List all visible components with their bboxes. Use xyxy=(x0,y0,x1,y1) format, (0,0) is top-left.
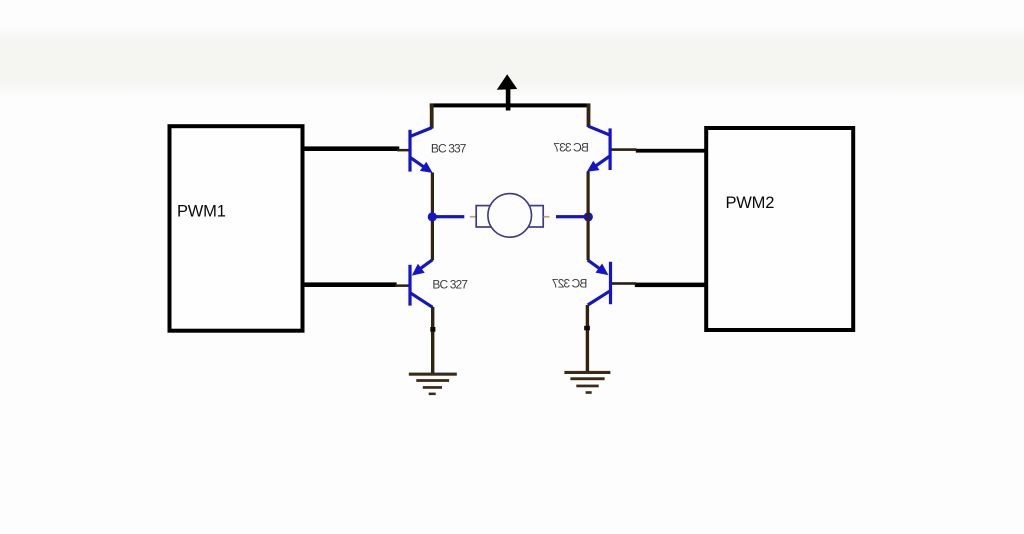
transistor Q2 emitter stroke xyxy=(417,260,432,271)
wire node B to motor xyxy=(556,215,588,218)
motor lead right (tan) xyxy=(544,216,550,218)
transistor Q2 BC327 base bar xyxy=(408,265,411,306)
transistor Q4 emitter stroke xyxy=(588,260,604,272)
supply arrow stem xyxy=(506,88,511,111)
transistor Q3 emitter stroke xyxy=(593,156,610,168)
wire rail to Q1 collector xyxy=(430,104,434,129)
node B junction dot xyxy=(584,212,593,221)
PWM1 box xyxy=(170,126,303,331)
wire node A to Q2 emitter xyxy=(431,217,434,260)
ground right line 3 xyxy=(576,385,598,388)
PWM2 box xyxy=(706,128,853,330)
svg-text:BC 337: BC 337 xyxy=(431,142,467,156)
wire Q3 emitter to node B xyxy=(587,172,590,218)
wire Q3 base thin tail xyxy=(610,148,637,151)
V+ supply rail xyxy=(430,103,591,107)
transistor Q1 emitter stroke xyxy=(411,158,428,170)
ground left line 2 xyxy=(416,379,449,382)
ground right line 1 xyxy=(564,371,610,374)
wire blob on Q4 ground wire xyxy=(584,326,590,331)
svg-text:BC 327: BC 327 xyxy=(552,277,588,291)
wire PWM1 to Q1 base xyxy=(303,146,400,151)
transistor Q1 emitter arrow xyxy=(420,162,433,173)
wire node A to motor xyxy=(432,215,465,218)
wire Q4 collector to ground xyxy=(586,305,589,373)
ground right line 2 xyxy=(570,377,604,380)
wire Q2 base thin tail xyxy=(395,284,410,287)
wire rail to Q3 collector xyxy=(587,104,591,128)
wire Q4 base thin tail xyxy=(610,282,636,285)
transistor Q3 collector stroke xyxy=(588,126,609,135)
node A junction dot xyxy=(428,212,437,221)
wire PWM2 to Q4 base xyxy=(635,283,707,288)
ground left line 3 xyxy=(423,386,442,389)
wire Q1 base thin tail xyxy=(397,149,410,152)
ground left line 1 xyxy=(409,373,457,376)
transistor Q3 emitter arrow xyxy=(587,161,600,172)
transistor Q3 BC337 base bar (mirrored) xyxy=(609,128,612,170)
transistor Q4 emitter arrow xyxy=(596,264,609,276)
transistor Q1 BC337 base bar xyxy=(408,130,411,172)
transistor Q2 collector stroke xyxy=(411,293,433,307)
transistor Q2 emitter arrow xyxy=(412,264,425,276)
motor lead left (tan) xyxy=(470,216,476,218)
svg-text:BC 337: BC 337 xyxy=(553,140,589,154)
motor M1 body circle xyxy=(488,194,532,238)
wire Q1 emitter to node A xyxy=(431,173,434,218)
transistor Q4 BC327 base bar (mirrored) xyxy=(609,262,612,304)
svg-text:PWM2: PWM2 xyxy=(726,194,775,212)
motor M1 right brush box xyxy=(523,206,543,227)
motor M1 left brush box xyxy=(476,206,496,227)
wire blob on Q2 ground wire xyxy=(430,327,435,332)
transistor Q4 collector stroke xyxy=(588,291,610,305)
transistor Q1 collector stroke xyxy=(411,128,432,137)
ground right line 4 xyxy=(586,391,592,394)
ground left line 4 xyxy=(429,393,436,396)
wire Q2 collector to ground xyxy=(431,307,434,374)
wire node B to Q4 emitter xyxy=(587,217,590,260)
svg-text:PWM1: PWM1 xyxy=(177,203,226,221)
supply arrow head xyxy=(497,74,517,90)
wire PWM2 to Q3 base xyxy=(636,149,707,153)
wire PWM1 to Q2 base xyxy=(303,282,397,287)
svg-text:BC 327: BC 327 xyxy=(432,277,468,291)
